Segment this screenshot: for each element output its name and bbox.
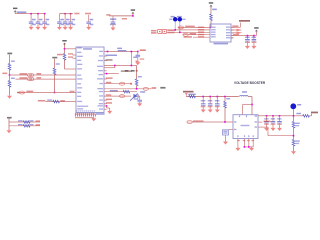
wire R4 down to P3 bbox=[54, 74, 56, 92]
resistor RSA bbox=[23, 121, 30, 124]
pin name U1 left bbox=[77, 60, 81, 61]
ground C9 bbox=[137, 102, 142, 107]
label GND block bbox=[7, 117, 12, 119]
pin name U1 left bbox=[77, 52, 81, 53]
testpoint labels bbox=[125, 70, 129, 72]
net label row 100 bbox=[106, 99, 112, 101]
wire Rdiv2 to ground bbox=[293, 146, 295, 151]
pin name U1 right bbox=[99, 51, 103, 52]
wire divider top bbox=[9, 55, 11, 64]
capacitor CO3 bbox=[279, 116, 281, 121]
net label row 79 bbox=[106, 77, 113, 79]
wire bottom bus bbox=[75, 113, 95, 115]
pin 4 label J1 left bbox=[211, 34, 216, 35]
capacitor CV3 bbox=[216, 97, 218, 104]
wire xtal row long bbox=[104, 65, 137, 67]
wire FTDI line1 bbox=[178, 26, 210, 28]
pin name U1 right bbox=[99, 108, 103, 109]
pin label P3 bbox=[70, 91, 75, 93]
node junction CO3 bbox=[279, 115, 281, 117]
ground CA1 bbox=[29, 25, 34, 30]
testpoint pad bbox=[136, 70, 138, 72]
U1 bottom pin stubs bbox=[75, 113, 77, 115]
wire gnd pins 2-4 bbox=[243, 141, 245, 147]
pin name U1 left bbox=[77, 47, 82, 48]
net label VBAT bbox=[183, 91, 194, 93]
wire R2 to ground bbox=[9, 87, 11, 96]
capacitor CO1 bbox=[266, 116, 268, 121]
node junction CB3 bbox=[70, 13, 72, 15]
node junction row73 bbox=[106, 73, 108, 75]
pin name U1 left bbox=[77, 68, 82, 69]
capacitor CO2 bbox=[272, 116, 274, 121]
net label J1 pin 3 bbox=[198, 31, 204, 33]
node junction vout bbox=[293, 115, 295, 117]
jumper pads P1 bbox=[27, 74, 31, 77]
row 91.7 serial resistor bbox=[104, 91, 137, 93]
ground U2 a bbox=[235, 146, 240, 151]
pin label J1 right 4 bbox=[226, 35, 230, 36]
net label left group C bbox=[106, 14, 110, 16]
ground CO2 bbox=[271, 126, 276, 131]
refdes U2 bbox=[241, 125, 250, 126]
pin name U1 left long bbox=[77, 106, 88, 107]
label R5 bbox=[47, 99, 52, 100]
label L3 bbox=[296, 113, 301, 114]
row 83.7 with jumper and nc bbox=[104, 83, 131, 85]
wire L2 to SW bbox=[248, 96, 252, 98]
capacitor C5 bbox=[112, 16, 114, 22]
ground CV2 bbox=[208, 108, 213, 113]
pin 5 label J1 left bbox=[211, 36, 216, 37]
pin name U1 right bbox=[98, 105, 104, 106]
wire J1 pin6 to VBAT bbox=[231, 26, 240, 28]
wire row P3 bbox=[18, 92, 76, 94]
jumper SJ2 bbox=[183, 33, 188, 36]
label P3 series top bbox=[52, 57, 57, 59]
pin stub J1 right 5 bbox=[231, 37, 234, 39]
wire VBAT drop bbox=[185, 95, 187, 96]
pin name U1 right bbox=[99, 99, 103, 100]
net label VCC rail A bbox=[17, 11, 27, 13]
net flag USB D+ bbox=[231, 29, 237, 31]
net label J1 pin 5 bbox=[198, 36, 204, 38]
node junction C6 bbox=[247, 35, 249, 37]
pin stub J1 right 2 bbox=[231, 29, 234, 31]
wire LED D2 anode bbox=[179, 22, 181, 33]
pin name U1 right bbox=[99, 74, 104, 75]
label line1 bbox=[185, 26, 195, 28]
pin name U1 right bbox=[98, 70, 103, 71]
wire FTDI line2 bbox=[167, 29, 210, 31]
pin name U1 left bbox=[77, 87, 82, 88]
node junction group C bbox=[132, 15, 134, 17]
node junction CA2 bbox=[37, 13, 39, 15]
wire serial row B bbox=[9, 125, 40, 127]
pin name U1 right bbox=[99, 103, 103, 104]
node junction CA1 bbox=[30, 13, 32, 15]
power symbol VCC U1 bbox=[62, 40, 66, 45]
wire pullup bottom bbox=[210, 20, 212, 27]
pin name U1 right bbox=[99, 95, 103, 96]
wire VOUT rail bbox=[258, 115, 294, 117]
net label VUSB bbox=[140, 49, 146, 51]
wire VOUT takeoff bbox=[294, 115, 303, 117]
resistor R4 bbox=[53, 68, 56, 75]
resistor R1 bbox=[8, 64, 11, 71]
ground C8 bbox=[135, 61, 140, 66]
ground bus bbox=[91, 117, 96, 122]
wire row73 bbox=[104, 73, 119, 75]
net label row 60 bbox=[106, 59, 113, 61]
ground CB1 bbox=[57, 25, 62, 30]
label line4 bbox=[190, 33, 197, 35]
net label P1 bbox=[20, 73, 28, 75]
resistor R7 bbox=[135, 79, 138, 86]
wire gnd drop bbox=[250, 146, 252, 149]
inductor L3 bbox=[303, 115, 310, 118]
node junction reset bbox=[136, 88, 138, 90]
pin name U1 left bbox=[77, 78, 82, 79]
capacitor CA3 bbox=[44, 14, 46, 22]
label R6 bbox=[57, 54, 63, 56]
wire VBAT rail bbox=[186, 96, 239, 98]
net label row 56 bbox=[106, 55, 118, 57]
capacitor CA1 bbox=[30, 14, 32, 22]
wire U1 pin gnd right bbox=[104, 105, 107, 107]
net label J1 pin 1 bbox=[198, 27, 204, 29]
power symbol VCC pullup bbox=[209, 2, 213, 7]
net label J1 pin 2 bbox=[198, 29, 204, 31]
net flag arrow row61 bbox=[136, 60, 140, 62]
net label P3 bbox=[26, 91, 33, 93]
jumper SJ1 bbox=[178, 26, 183, 29]
wire VCC rail group B bbox=[59, 13, 73, 15]
MCU U1 body bbox=[76, 47, 104, 113]
net label above C4 bbox=[85, 13, 91, 15]
net label P4 bbox=[38, 100, 46, 102]
wire R6 to reset pin bbox=[64, 60, 66, 69]
pin name U1 left bbox=[77, 83, 81, 84]
LED D1 bbox=[173, 17, 178, 22]
ground CB3 bbox=[68, 25, 73, 30]
pin stub J1 right 4 bbox=[231, 35, 234, 37]
U1 left pin stubs bbox=[73, 54, 77, 56]
node junction SW bbox=[251, 104, 253, 106]
jumper text right bbox=[168, 30, 175, 32]
label L1 bbox=[117, 48, 122, 50]
label R pullup bbox=[212, 9, 217, 11]
node junction VCC/pin bbox=[64, 48, 66, 50]
node junction usb2 bbox=[137, 51, 139, 53]
value D1 bbox=[169, 19, 172, 20]
wire usb branch down bbox=[130, 52, 132, 66]
pin 3 label J1 left bbox=[211, 32, 216, 33]
pin name U1 right bbox=[99, 55, 103, 56]
ground CO1 bbox=[264, 126, 269, 131]
label row xtal label bbox=[121, 70, 132, 72]
pin stub J1 right 1 bbox=[231, 26, 234, 28]
net label EN bbox=[193, 120, 204, 122]
node junction CO2 bbox=[272, 115, 274, 117]
resistor R8 bbox=[123, 90, 130, 93]
ground serial bbox=[7, 129, 12, 134]
ground CV1 bbox=[201, 108, 206, 113]
label P1 right bbox=[37, 73, 42, 75]
resistor RSB bbox=[23, 125, 30, 128]
resistor R-EN bbox=[224, 101, 227, 108]
pin name U1 right bbox=[98, 60, 103, 61]
pin name U1 right bbox=[99, 83, 103, 84]
value D2 bbox=[182, 19, 185, 20]
node junction C7 bbox=[253, 35, 255, 37]
pin label J1 right 1 bbox=[226, 27, 230, 28]
pin numbers U2 bottom bbox=[237, 135, 238, 137]
wire CB to ground bbox=[225, 135, 227, 141]
net label DTR bbox=[152, 87, 157, 89]
node junction xtal b bbox=[131, 65, 133, 67]
node junction EN bbox=[224, 121, 226, 123]
label R7 bbox=[138, 76, 142, 77]
testpoint EN bbox=[187, 121, 192, 124]
wire 5V rail from J1 bbox=[231, 35, 256, 37]
diode D3 bbox=[133, 94, 138, 98]
net label row A bbox=[36, 120, 41, 121]
capacitor C7 bbox=[253, 36, 255, 39]
label diode D3 bbox=[140, 91, 145, 93]
pin name U1 left bbox=[77, 101, 82, 102]
wire VCC rail group A bbox=[14, 12, 16, 14]
capacitor CB3 bbox=[70, 14, 72, 22]
ground CV3 bbox=[215, 108, 220, 113]
wire row P4 bbox=[46, 101, 77, 103]
ground U1 right bbox=[107, 109, 112, 114]
label VBAT_USB bbox=[239, 20, 250, 22]
net label pin2 bbox=[264, 121, 271, 123]
pin name U1 left bbox=[77, 92, 81, 93]
net flag USB D- bbox=[231, 32, 237, 34]
node LED2 junction bbox=[179, 32, 181, 34]
ground C7 bbox=[251, 44, 256, 49]
inductor L2 bbox=[242, 91, 247, 93]
component box CB bbox=[223, 130, 229, 135]
wire EN resistor bbox=[224, 97, 226, 102]
pin stub J1 right 3 bbox=[231, 32, 234, 34]
wire pullup top bbox=[210, 6, 212, 14]
ground C5 bbox=[111, 26, 116, 31]
power symbol VCC right bbox=[254, 27, 258, 32]
wire group C rail bbox=[109, 15, 133, 17]
wire EN row bbox=[192, 121, 233, 123]
jumper pad P3 bbox=[19, 91, 24, 94]
ground CB bbox=[223, 140, 228, 145]
resistor Rdiv1 bbox=[292, 121, 295, 128]
ground C6 bbox=[245, 44, 250, 49]
label bus right bbox=[96, 113, 105, 115]
U1 bottom pin numbers bbox=[76, 110, 77, 111]
wire USB line U1 bbox=[104, 51, 138, 53]
U2 bottom stubs bbox=[237, 139, 239, 142]
refdes label J1 bbox=[214, 43, 229, 45]
ground CB2 bbox=[63, 25, 68, 30]
wire R1 to node bbox=[9, 70, 11, 75]
resistor R pullup bbox=[210, 14, 213, 21]
ground divider bbox=[7, 94, 12, 99]
jumper text left bbox=[151, 30, 157, 32]
wire VCC down bbox=[64, 44, 66, 54]
LED D4 big bbox=[290, 103, 296, 109]
LED D2 bbox=[178, 17, 183, 22]
label rail bbox=[233, 34, 239, 36]
label D1 bbox=[171, 16, 175, 18]
node junction xtal a bbox=[114, 65, 116, 67]
row 96.1 diode row bbox=[104, 95, 131, 97]
node junction CV3 bbox=[217, 96, 219, 98]
wire reset row bbox=[104, 88, 143, 90]
ground CO3 bbox=[277, 126, 282, 131]
ground CA3 bbox=[42, 25, 47, 30]
pin name U1 left bbox=[77, 56, 83, 57]
node LED1 junction bbox=[174, 29, 176, 31]
resistor R2 bbox=[9, 75, 11, 81]
net flag VOUT bbox=[311, 112, 318, 114]
wire xtal row short bbox=[104, 67, 115, 69]
pin name U1 right bbox=[97, 66, 103, 67]
pin label J1 right 2 bbox=[226, 29, 230, 30]
label FB1 bbox=[188, 94, 196, 95]
node junction P3 bbox=[54, 92, 56, 94]
pin name U1 left bbox=[77, 75, 81, 76]
net label J1 pin 4 bbox=[198, 34, 204, 36]
pin name U1 right bbox=[97, 88, 103, 89]
wire FTDI line3 bbox=[167, 31, 210, 33]
resistor Rdiv2 bbox=[292, 139, 295, 146]
pin name U1 right bbox=[97, 78, 103, 79]
pin labels U2 bottom bbox=[237, 140, 240, 141]
label Rdiv1 bbox=[295, 123, 300, 124]
wire FTDI line5 bbox=[193, 36, 210, 38]
net label row B bbox=[36, 124, 41, 125]
inductor L1 bbox=[118, 50, 126, 51]
net label right of rail B bbox=[74, 13, 79, 15]
capacitor C6 bbox=[246, 36, 248, 39]
node junction CO1 bbox=[266, 115, 268, 117]
ground CA2 bbox=[36, 25, 41, 30]
capacitor C9 bbox=[137, 100, 142, 102]
wire gnd pin1 bbox=[237, 141, 239, 148]
refdes U1 bbox=[83, 48, 92, 50]
label pin6 bbox=[232, 25, 238, 27]
pin 2 label J1 left bbox=[211, 29, 216, 30]
power symbol VCC group C bbox=[131, 9, 135, 14]
pin label J1 right 3 bbox=[226, 32, 230, 33]
capacitor CA2 bbox=[37, 14, 39, 22]
ground U2 b bbox=[249, 146, 254, 151]
wire FB routing bbox=[258, 126, 268, 128]
jumper JP1 pads bbox=[158, 29, 162, 33]
label bus bottom bbox=[75, 117, 94, 118]
wire FTDI line4 bbox=[183, 34, 210, 36]
wire R7 to reset node bbox=[136, 85, 138, 89]
booster IC U2 body bbox=[233, 115, 258, 139]
node junction EN-R bbox=[224, 96, 226, 98]
node line1/pullup junction bbox=[209, 27, 211, 29]
jumper pad dots bbox=[159, 31, 161, 33]
fuse FB1 bbox=[189, 95, 196, 98]
label divider top bbox=[7, 53, 12, 55]
label Rdiv2 bbox=[295, 140, 300, 141]
resistor R6 pullup bbox=[63, 54, 66, 61]
node junction divider bbox=[9, 74, 11, 76]
wire VCC to U1 bbox=[65, 48, 77, 50]
wire P3 vertical bbox=[54, 59, 56, 68]
node junction FB bbox=[293, 135, 295, 137]
wire diode to cap bbox=[139, 96, 141, 100]
pin 1 label J1 left bbox=[211, 27, 216, 28]
wire to VOUT flag bbox=[310, 115, 312, 117]
capacitor C4 standalone bbox=[88, 15, 90, 22]
label at node bbox=[2, 73, 7, 75]
node junction CB2 bbox=[64, 13, 66, 15]
wire LED D1 anode bbox=[174, 22, 176, 30]
jumper pads P2 bbox=[27, 78, 31, 81]
wire row P2 bbox=[16, 78, 77, 80]
U2 side pin ticks bbox=[234, 121, 236, 122]
pin name U1 left bbox=[77, 96, 81, 97]
wire SW jog bbox=[243, 104, 253, 106]
pin name U1 left bbox=[77, 64, 82, 65]
pin name U1 right bbox=[99, 91, 103, 92]
wire D4 down bbox=[293, 109, 295, 121]
bus pin hatch bbox=[75, 114, 76, 116]
pin numbers U2 top bbox=[239, 115, 240, 117]
resistor R5 bbox=[53, 100, 60, 103]
pin label J1 right 5 bbox=[226, 37, 230, 38]
U2 right pin2 stub bbox=[258, 121, 263, 123]
capacitor CB2 bbox=[64, 14, 66, 22]
label P2 right bbox=[37, 77, 42, 79]
node junction CA3 bbox=[44, 13, 46, 15]
capacitor CV1 bbox=[202, 97, 204, 104]
power flag VBAT arrow bbox=[185, 93, 188, 96]
ground C4 bbox=[86, 25, 91, 30]
power symbol VCC group A bbox=[13, 8, 17, 13]
wire Rdiv1 to node bbox=[293, 128, 295, 140]
node junction CV1 bbox=[202, 96, 204, 98]
label line5 bbox=[184, 36, 193, 38]
connector J1 body bbox=[210, 24, 231, 42]
pin label P4 bbox=[60, 100, 65, 102]
U2 left pin2 with box bbox=[229, 129, 234, 131]
capacitor CV2 bbox=[209, 97, 211, 104]
wire serial vertical bbox=[8, 119, 10, 130]
label D4 bbox=[297, 104, 301, 106]
net label row 103.8 bbox=[106, 102, 112, 104]
pin name U1 left bbox=[77, 108, 83, 109]
label TP7 bbox=[160, 87, 165, 89]
label D2 bbox=[177, 16, 182, 18]
ground divider out bbox=[291, 150, 296, 155]
capacitor DTR oval bbox=[143, 87, 148, 90]
wire TP down bbox=[136, 66, 138, 80]
wire row P1 bbox=[10, 74, 77, 76]
U1 right pin stubs bbox=[104, 55, 107, 57]
svg-text:VOLTAGE BOOSTER: VOLTAGE BOOSTER bbox=[234, 81, 266, 85]
wire serial row A bbox=[9, 121, 40, 123]
capacitor CB1 bbox=[58, 14, 60, 22]
node junction CV2 bbox=[209, 96, 211, 98]
net label P2 bbox=[20, 77, 28, 79]
